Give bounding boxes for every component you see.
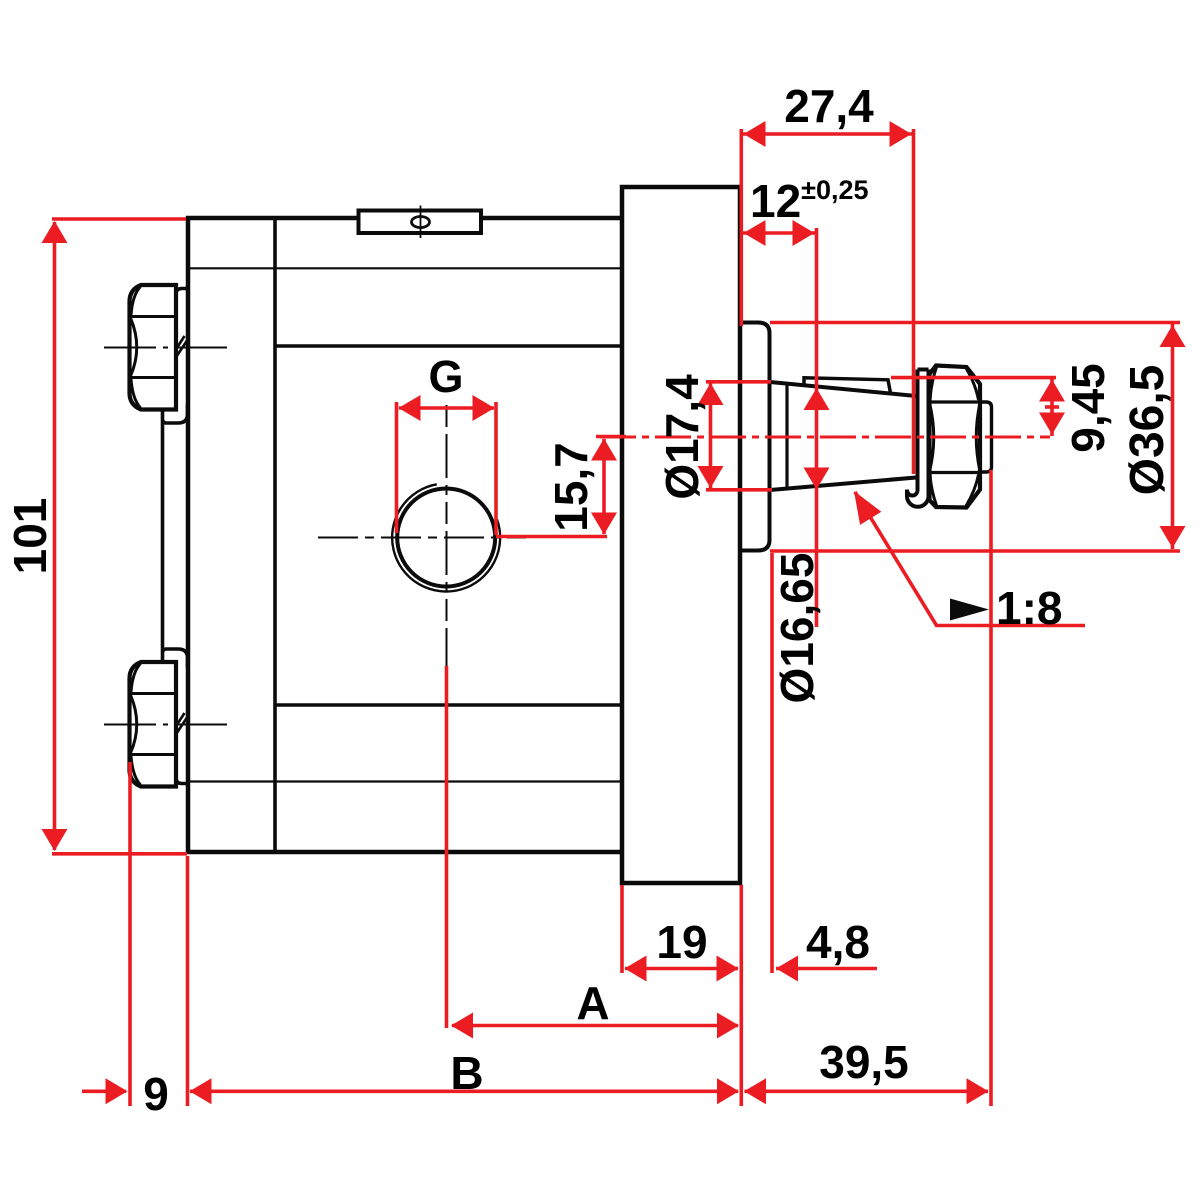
lifting tab on top xyxy=(359,211,482,234)
pump body outline xyxy=(188,218,622,852)
dim 101 extension top xyxy=(52,217,186,221)
dim 39,5 right extension xyxy=(989,470,993,1106)
dim B line xyxy=(190,1090,738,1094)
svg-text:101: 101 xyxy=(4,498,56,575)
dim B left extension xyxy=(186,856,190,1106)
mounting flange plate xyxy=(622,187,740,883)
dim 9 extension line xyxy=(128,762,132,1106)
lower nut facet arcs xyxy=(131,664,141,786)
dim 27,4 right extension xyxy=(912,129,916,474)
dim A left extension xyxy=(445,666,449,1028)
svg-text:Ø17,4: Ø17,4 xyxy=(656,374,708,500)
main shaft centerline (red) xyxy=(600,436,1050,439)
dim 39,5 arrows xyxy=(744,1078,766,1104)
dim G tick left xyxy=(395,402,399,533)
upper nut facet lines xyxy=(131,317,176,378)
dim 19 left extension xyxy=(620,885,624,973)
diam 17,4 line xyxy=(709,383,713,488)
lower stud thread marks xyxy=(176,713,189,735)
shaft hex nut xyxy=(930,366,981,508)
port horizontal centerline xyxy=(318,537,526,539)
lower stud centerline xyxy=(104,724,229,726)
shaft end stub xyxy=(980,402,992,472)
body internal line top inner xyxy=(275,344,622,347)
dim 101 extension bottom xyxy=(52,852,187,856)
lower stud washer xyxy=(163,649,188,784)
tapered shaft bottom edge xyxy=(770,478,916,491)
taper 1:8 leader xyxy=(855,492,1085,626)
diam 17,4 bottom tick xyxy=(706,488,772,492)
body internal line bottom inner xyxy=(275,703,622,707)
dim 9,45 line xyxy=(1050,379,1054,436)
dim 101 arrows xyxy=(42,221,68,243)
svg-text:1:8: 1:8 xyxy=(996,582,1062,634)
dim 9 arrow tail xyxy=(82,1090,126,1094)
upper stud thread marks xyxy=(176,336,189,358)
svg-text:27,4: 27,4 xyxy=(784,80,874,132)
dim 9,45 key extension xyxy=(891,376,1056,380)
taper symbol triangle xyxy=(950,599,989,621)
diam 36,5 bottom extension xyxy=(770,549,1180,553)
diam 36,5 line xyxy=(1171,324,1175,549)
pilot boss on flange xyxy=(742,323,770,551)
upper stud washer xyxy=(163,289,188,424)
svg-text:19: 19 xyxy=(656,916,707,968)
port circle (G thread) xyxy=(397,489,495,587)
dim 4,8 line xyxy=(776,967,877,971)
port center link line xyxy=(496,535,607,539)
dim 19 line xyxy=(625,967,738,971)
dim 12 line xyxy=(743,231,815,235)
pump body top edge right segment xyxy=(481,216,624,221)
diam 16,65 arrows xyxy=(804,388,830,410)
svg-text:39,5: 39,5 xyxy=(819,1036,909,1088)
tapered shaft top edge xyxy=(770,382,916,396)
svg-text:9,45: 9,45 xyxy=(1062,363,1114,453)
shaft key xyxy=(804,378,891,393)
diam 36,5 top extension xyxy=(770,321,1180,325)
svg-text:Ø36,5: Ø36,5 xyxy=(1121,365,1174,496)
tab hole ellipse xyxy=(412,217,430,228)
diam 36,5 arrows xyxy=(1160,325,1186,347)
port vertical centerline xyxy=(446,405,448,700)
diam 17,4 top tick xyxy=(706,380,771,384)
dim 15,7 line xyxy=(602,439,606,534)
taper leader arrow xyxy=(843,484,881,524)
shaft nut facet lines xyxy=(930,402,981,473)
upper nut facet arcs xyxy=(131,287,141,409)
dim A line xyxy=(452,1024,738,1028)
dim 12 arrows xyxy=(744,220,766,246)
dim 19 arrows xyxy=(625,956,647,982)
body internal vertical xyxy=(273,218,277,852)
svg-text:A: A xyxy=(576,977,609,1029)
dim 27,4/12 left extension xyxy=(739,129,743,326)
dim 15,7 top tick xyxy=(596,435,626,439)
svg-text:9: 9 xyxy=(143,1068,169,1120)
tab washer (J shape) xyxy=(918,370,929,498)
port thread arc xyxy=(392,484,500,591)
dim 4,8 extension xyxy=(770,553,774,973)
boss rib between studs xyxy=(161,410,165,661)
dim 9,45 arrows xyxy=(1039,380,1065,402)
dim A arrows xyxy=(451,1013,473,1039)
svg-text:Ø16,65: Ø16,65 xyxy=(771,553,823,704)
dim 9,45 middle bar xyxy=(1045,405,1059,409)
lower nut facet lines xyxy=(131,694,176,755)
dim 27,4 arrows xyxy=(744,121,766,147)
dim G arrows xyxy=(399,395,421,421)
upper stud hex nut xyxy=(130,285,177,410)
diam 17,4 arrows xyxy=(698,383,724,405)
shaft nut facet arcs xyxy=(930,367,981,506)
dim 12 right / diam 16,65 extension xyxy=(815,228,819,627)
lower stud hex nut xyxy=(130,662,177,787)
dim 39,5 line xyxy=(745,1090,989,1094)
dim G tick right xyxy=(494,402,498,535)
dim B arrows xyxy=(190,1078,212,1104)
dim 27,4 line xyxy=(743,132,912,136)
tab centerline xyxy=(420,206,422,239)
dim 15,7 arrows xyxy=(591,439,617,461)
upper stud centerline xyxy=(104,347,229,349)
taper shoulder line xyxy=(785,386,788,488)
body internal line bottom outer xyxy=(190,780,622,782)
dim 9 arrow xyxy=(106,1078,128,1104)
dim G line xyxy=(399,406,494,410)
dim 4,8 arrow xyxy=(776,956,798,982)
svg-text:4,8: 4,8 xyxy=(806,916,870,968)
svg-text:15,7: 15,7 xyxy=(545,442,597,532)
dim 101 line xyxy=(53,222,57,850)
svg-text:G: G xyxy=(428,351,463,402)
svg-text:B: B xyxy=(450,1047,483,1099)
body internal line top outer xyxy=(190,267,622,269)
shared right extension 19/A/B/39,5 xyxy=(739,885,743,1106)
